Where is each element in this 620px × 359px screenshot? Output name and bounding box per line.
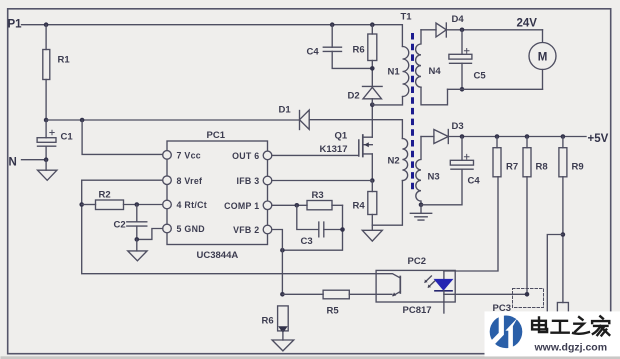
diode D1: [279, 105, 310, 130]
resistor R9: [559, 137, 584, 303]
transformer core: [411, 33, 414, 190]
svg-text:M: M: [538, 52, 548, 64]
resistor R5: [282, 290, 392, 316]
resistor R3: [307, 190, 343, 210]
wire LED cathode down: [443, 302, 445, 313]
wire N1 bottom to drain node: [372, 97, 402, 105]
svg-text:C2: C2: [114, 220, 126, 231]
pin 1 COMP: [224, 201, 272, 211]
svg-text:R6: R6: [353, 45, 365, 56]
resistor R1: [43, 25, 71, 120]
svg-text:+5V: +5V: [588, 133, 609, 145]
pin 5 GND: [163, 224, 205, 234]
wire 24V return: [448, 88, 543, 90]
svg-text:C5: C5: [474, 71, 487, 82]
svg-text:C1: C1: [61, 132, 74, 143]
svg-text:R6: R6: [262, 316, 274, 327]
svg-text:Q1: Q1: [335, 131, 348, 142]
svg-text:D2: D2: [348, 91, 360, 102]
shunt regulator PC3 dashed box: [493, 289, 544, 315]
resistor R6 snubber: [353, 22, 377, 86]
svg-text:4 Rt/Ct: 4 Rt/Ct: [177, 200, 207, 210]
wire Vref rail to optocoupler: [79, 180, 376, 274]
wire P1 top rail: [22, 22, 403, 46]
pin 7 Vcc: [163, 151, 201, 161]
wire COMP to R3: [272, 203, 307, 208]
svg-text:R1: R1: [58, 55, 71, 66]
svg-text:PC2: PC2: [408, 256, 426, 267]
svg-text:N2: N2: [388, 156, 400, 167]
wire VFB down: [272, 230, 285, 297]
wire +5V rail: [448, 134, 586, 139]
svg-text:PC1: PC1: [207, 130, 226, 141]
svg-text:UC3844A: UC3844A: [197, 250, 239, 261]
winding N2: [372, 139, 407, 226]
svg-text:PC817: PC817: [403, 305, 432, 316]
svg-text:D3: D3: [452, 121, 464, 132]
svg-text:24V: 24V: [517, 18, 538, 30]
watermark panel: [485, 311, 620, 356]
svg-text:IFB 3: IFB 3: [236, 176, 259, 186]
svg-text:5 GND: 5 GND: [177, 224, 205, 234]
winding N1: [388, 47, 409, 97]
wire Vcc to pin 7: [82, 120, 163, 154]
svg-text:D4: D4: [452, 14, 465, 25]
op-amp U1 PC1 UC3844A box: [167, 130, 268, 261]
node 24V: [517, 18, 538, 30]
wire pin 5 to ground: [135, 229, 163, 242]
transformer T1 label: [401, 12, 413, 23]
winding N3: [416, 137, 440, 205]
watermark logo: [490, 314, 523, 352]
node N: [9, 157, 17, 169]
wire LED cathode to R8 column: [444, 177, 529, 297]
pin 6 OUT: [232, 151, 272, 161]
ground below R4: [362, 230, 382, 241]
svg-text:R2: R2: [99, 190, 111, 201]
svg-text:COMP 1: COMP 1: [224, 201, 259, 211]
capacitor C4 snubber: [307, 22, 373, 68]
capacitor C3: [297, 205, 343, 247]
resistor R6 lower: [262, 306, 289, 340]
LED of PC2: [435, 271, 452, 302]
svg-text:N1: N1: [388, 67, 401, 78]
svg-text:T1: T1: [401, 12, 413, 23]
svg-text:R5: R5: [327, 306, 340, 317]
wire N to C1: [22, 157, 49, 162]
diode D3: [421, 121, 464, 144]
svg-text:R9: R9: [572, 162, 584, 173]
phototransistor of PC2: [376, 274, 400, 296]
capacitor C2: [114, 202, 147, 239]
svg-text:VFB 2: VFB 2: [233, 225, 259, 235]
svg-text:N3: N3: [428, 172, 440, 183]
resistor R7: [493, 137, 518, 177]
winding N4: [416, 30, 448, 105]
svg-text:C4: C4: [307, 47, 320, 58]
watermark url: [534, 342, 608, 354]
optocoupler U2 PC2 PC817 box: [376, 256, 455, 316]
resistor R4: [353, 181, 377, 231]
svg-text:N: N: [9, 157, 17, 169]
transistor Q1 K1317: [320, 102, 375, 182]
diode D4: [421, 14, 543, 37]
pin 3 IFB: [236, 176, 271, 186]
ground below R6: [272, 340, 294, 351]
capacitor C1: [37, 118, 73, 160]
resistor R2: [82, 190, 163, 210]
svg-text:R7: R7: [506, 162, 518, 173]
capacitor C5: [449, 28, 486, 92]
svg-text:7 Vcc: 7 Vcc: [177, 151, 202, 161]
light arrows inside PC2: [425, 276, 435, 287]
svg-text:R4: R4: [353, 201, 366, 212]
pin 8 Vref: [163, 176, 203, 186]
watermark title 电工之家 drawn glyphs: [532, 316, 609, 335]
svg-text:D1: D1: [279, 105, 292, 116]
ground N3 earth: [410, 203, 431, 221]
wire OUT to Q1 gate: [272, 154, 359, 156]
svg-text:C3: C3: [301, 236, 313, 247]
node +5V: [588, 133, 609, 145]
svg-text:P1: P1: [8, 19, 23, 31]
capacitor C4 output: [421, 137, 480, 205]
svg-text:C4: C4: [468, 176, 481, 187]
svg-text:www.dgzj.com: www.dgzj.com: [534, 342, 608, 354]
ground below C2: [128, 239, 147, 260]
node P1: [8, 19, 23, 31]
resistor below R9: [557, 303, 568, 326]
pin 2 VFB: [233, 225, 272, 235]
wire LED anode to R7 column: [444, 177, 498, 271]
motor M: [529, 30, 556, 90]
svg-text:R3: R3: [312, 190, 324, 201]
wire R9 tap down: [547, 235, 563, 312]
svg-text:K1317: K1317: [320, 144, 348, 155]
wire IFB to Q1 source: [272, 180, 373, 182]
wire R3/C3 to VFB rail: [280, 205, 345, 252]
resistor R8: [523, 137, 548, 177]
wire D1 to N2 top: [309, 120, 402, 139]
diode D2 zener: [348, 86, 383, 104]
pin 4 Rt/Ct: [163, 200, 207, 210]
svg-text:R8: R8: [536, 162, 548, 173]
svg-text:OUT 6: OUT 6: [232, 151, 259, 161]
svg-text:N4: N4: [429, 66, 442, 77]
svg-text:8 Vref: 8 Vref: [177, 176, 203, 186]
ground below C1: [38, 160, 57, 181]
wire Vcc rail from C1 to D1: [46, 118, 299, 123]
